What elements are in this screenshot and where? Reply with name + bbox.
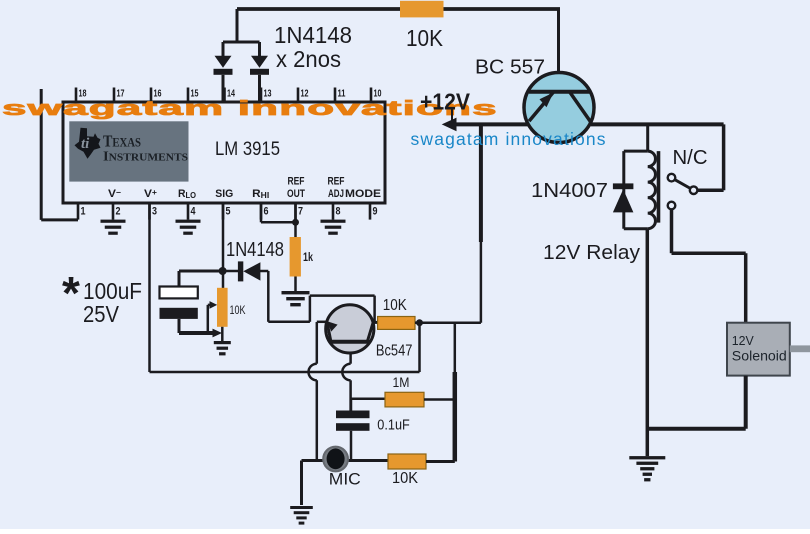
svg-text:4: 4: [191, 206, 197, 218]
svg-text:8: 8: [336, 206, 341, 218]
svg-text:1N4007: 1N4007: [531, 180, 608, 202]
svg-text:ti: ti: [81, 136, 90, 152]
svg-text:x 2nos: x 2nos: [276, 46, 341, 72]
svg-text:25V: 25V: [83, 301, 120, 327]
svg-text:N/C: N/C: [673, 147, 708, 169]
svg-text:REF: REF: [328, 176, 345, 188]
svg-text:9: 9: [373, 206, 378, 218]
svg-text:INSTRUMENTS: INSTRUMENTS: [103, 150, 188, 165]
svg-text:MODE: MODE: [345, 188, 381, 200]
svg-text:LM 3915: LM 3915: [215, 139, 280, 160]
svg-text:2: 2: [116, 206, 121, 218]
svg-text:5: 5: [226, 206, 231, 218]
svg-text:Solenoid: Solenoid: [732, 348, 787, 364]
svg-text:1N4148: 1N4148: [274, 22, 352, 48]
svg-text:10K: 10K: [383, 297, 407, 314]
svg-text:ADJ: ADJ: [328, 188, 344, 200]
svg-text:MIC: MIC: [329, 470, 361, 489]
svg-text:Bc547: Bc547: [376, 343, 413, 360]
svg-text:1k: 1k: [303, 250, 313, 264]
svg-text:REF: REF: [288, 176, 305, 188]
svg-text:BC 557: BC 557: [475, 57, 545, 79]
svg-text:10K: 10K: [392, 470, 418, 487]
svg-text:12V: 12V: [732, 334, 755, 348]
svg-text:TEXAS: TEXAS: [103, 132, 141, 151]
svg-text:SIG: SIG: [215, 188, 233, 200]
svg-text:0.1uF: 0.1uF: [377, 418, 410, 434]
svg-text:OUT: OUT: [287, 188, 305, 200]
svg-text:swagatam innovations: swagatam innovations: [411, 129, 607, 149]
svg-text:6: 6: [264, 206, 269, 218]
svg-text:+12V: +12V: [420, 89, 471, 115]
svg-text:7: 7: [298, 206, 303, 218]
svg-text:3: 3: [152, 206, 157, 218]
svg-text:12V Relay: 12V Relay: [543, 242, 640, 264]
svg-text:1M: 1M: [393, 374, 410, 390]
svg-text:10K: 10K: [406, 25, 444, 51]
svg-text:1: 1: [81, 206, 86, 218]
svg-text:10K: 10K: [230, 303, 246, 317]
svg-text:1N4148: 1N4148: [226, 239, 284, 261]
svg-text:*: *: [62, 267, 80, 319]
